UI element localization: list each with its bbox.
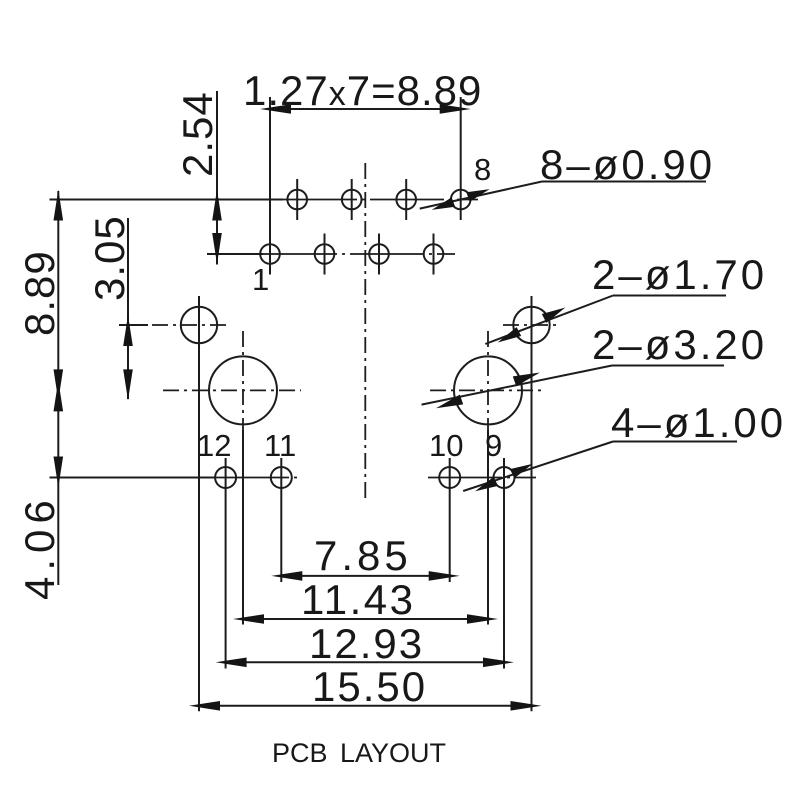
svg-text:11: 11 — [264, 428, 296, 463]
dimension 1.27x7=8.89 — [243, 67, 482, 114]
svg-text:PCB LAYOUT: PCB LAYOUT — [272, 738, 446, 768]
svg-text:3.05: 3.05 — [86, 215, 133, 301]
svg-text:12: 12 — [197, 428, 231, 463]
svg-text:15.50: 15.50 — [312, 663, 427, 710]
svg-text:2–ø1.70: 2–ø1.70 — [592, 251, 767, 298]
svg-text:4.06: 4.06 — [16, 494, 63, 600]
leader 4-dia1.00 — [463, 399, 786, 491]
pin 12 label — [197, 428, 231, 463]
pin 5 — [369, 234, 389, 275]
svg-text:7.85: 7.85 — [314, 532, 412, 579]
pin 6 — [396, 179, 416, 220]
pin 10 — [439, 458, 460, 582]
leader 2-dia3.20 — [422, 321, 768, 408]
dimension 3.05 — [86, 215, 133, 400]
centerline vertical axis — [364, 163, 366, 503]
dimension 4.06 — [16, 380, 63, 600]
svg-text:12.93: 12.93 — [309, 620, 424, 667]
leader 8-dia0.90 — [420, 141, 715, 210]
pin 7 — [424, 234, 444, 275]
dimension 8.89 left — [16, 190, 63, 401]
svg-text:1.27x7=8.89: 1.27x7=8.89 — [243, 67, 482, 114]
dimension 12.93 — [216, 620, 514, 667]
pin 8 — [451, 97, 471, 220]
svg-text:10: 10 — [429, 428, 463, 463]
svg-text:2–ø3.20: 2–ø3.20 — [592, 321, 767, 368]
bottom pin row centerline — [50, 477, 537, 479]
pin 12 — [215, 458, 236, 669]
dimension 2.54 — [174, 91, 222, 265]
pin 11 — [271, 458, 292, 582]
mounting hole left 1.70 — [119, 296, 227, 711]
dimension 15.50 — [189, 663, 542, 711]
svg-text:8.89: 8.89 — [16, 250, 63, 336]
pin 2 — [287, 179, 307, 220]
pin 1 — [260, 97, 280, 275]
pin 3 — [315, 234, 335, 275]
big hole left 3.20 — [163, 331, 301, 625]
big hole right 3.20 — [430, 331, 541, 625]
pin 10 label — [429, 428, 463, 463]
pin 8 label — [474, 152, 491, 187]
title PCB LAYOUT — [272, 738, 446, 768]
pin 9 label — [485, 428, 502, 463]
svg-text:9: 9 — [485, 428, 502, 463]
dimension 7.85 — [271, 532, 459, 581]
svg-text:11.43: 11.43 — [301, 576, 416, 623]
pin 1 label — [252, 262, 269, 297]
svg-text:8: 8 — [474, 152, 491, 187]
dimension 11.43 — [233, 576, 498, 624]
mounting hole right 1.70 — [503, 296, 560, 711]
pin 4 — [342, 179, 362, 220]
top pin row centerline — [50, 199, 479, 201]
svg-text:1: 1 — [252, 262, 269, 297]
pin 9 — [494, 458, 515, 669]
pin 11 label — [264, 428, 296, 463]
leader 2-dia1.70 — [485, 251, 767, 344]
bottom pin row centerline — [207, 253, 455, 255]
svg-text:4–ø1.00: 4–ø1.00 — [611, 399, 786, 446]
svg-text:2.54: 2.54 — [174, 91, 221, 177]
